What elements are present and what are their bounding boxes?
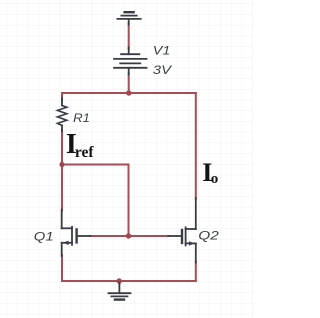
svg-text:Q2: Q2 bbox=[198, 229, 219, 243]
svg-text:ref: ref bbox=[75, 144, 94, 161]
battery V1 bbox=[114, 48, 146, 75]
wire: Iref tap horizontal bbox=[62, 164, 129, 166]
wire: gate bus between Q1 and Q2 bbox=[90, 235, 168, 237]
svg-text:R1: R1 bbox=[73, 111, 90, 125]
node: gate wire junction bbox=[126, 233, 131, 238]
wire: R1 bottom to Q1 drain bbox=[61, 130, 63, 211]
wire: Q1 source to bottom rail bbox=[61, 255, 63, 281]
node: ground junction bbox=[117, 278, 122, 283]
wire: rail to R1 top bbox=[61, 93, 63, 100]
wire: top rail bbox=[62, 92, 196, 94]
wire: ground stem red tip bbox=[118, 281, 120, 284]
ground (bottom) bbox=[109, 283, 131, 300]
wire: battery to top rail bbox=[128, 74, 130, 94]
svg-text:o: o bbox=[211, 171, 219, 187]
node: Iref junction bbox=[59, 162, 64, 167]
svg-text:Q1: Q1 bbox=[34, 229, 54, 243]
wire: right rail down to Q2 drain bbox=[195, 93, 197, 199]
node: top rail junction bbox=[126, 90, 131, 95]
wire: bottom rail bbox=[62, 280, 196, 282]
transistor Q1 (NMOS) bbox=[62, 210, 91, 257]
ground (top, at battery negative) bbox=[117, 12, 140, 24]
wire: Iref tap vertical to gates bbox=[128, 165, 130, 237]
svg-text:3V: 3V bbox=[153, 63, 172, 77]
wire: top ground to battery bbox=[128, 23, 130, 49]
resistor R1 bbox=[57, 99, 66, 132]
svg-text:V1: V1 bbox=[153, 44, 171, 58]
wire: Q2 source to bottom rail bbox=[195, 262, 197, 282]
transistor Q2 (NMOS, mirrored) bbox=[168, 198, 196, 263]
